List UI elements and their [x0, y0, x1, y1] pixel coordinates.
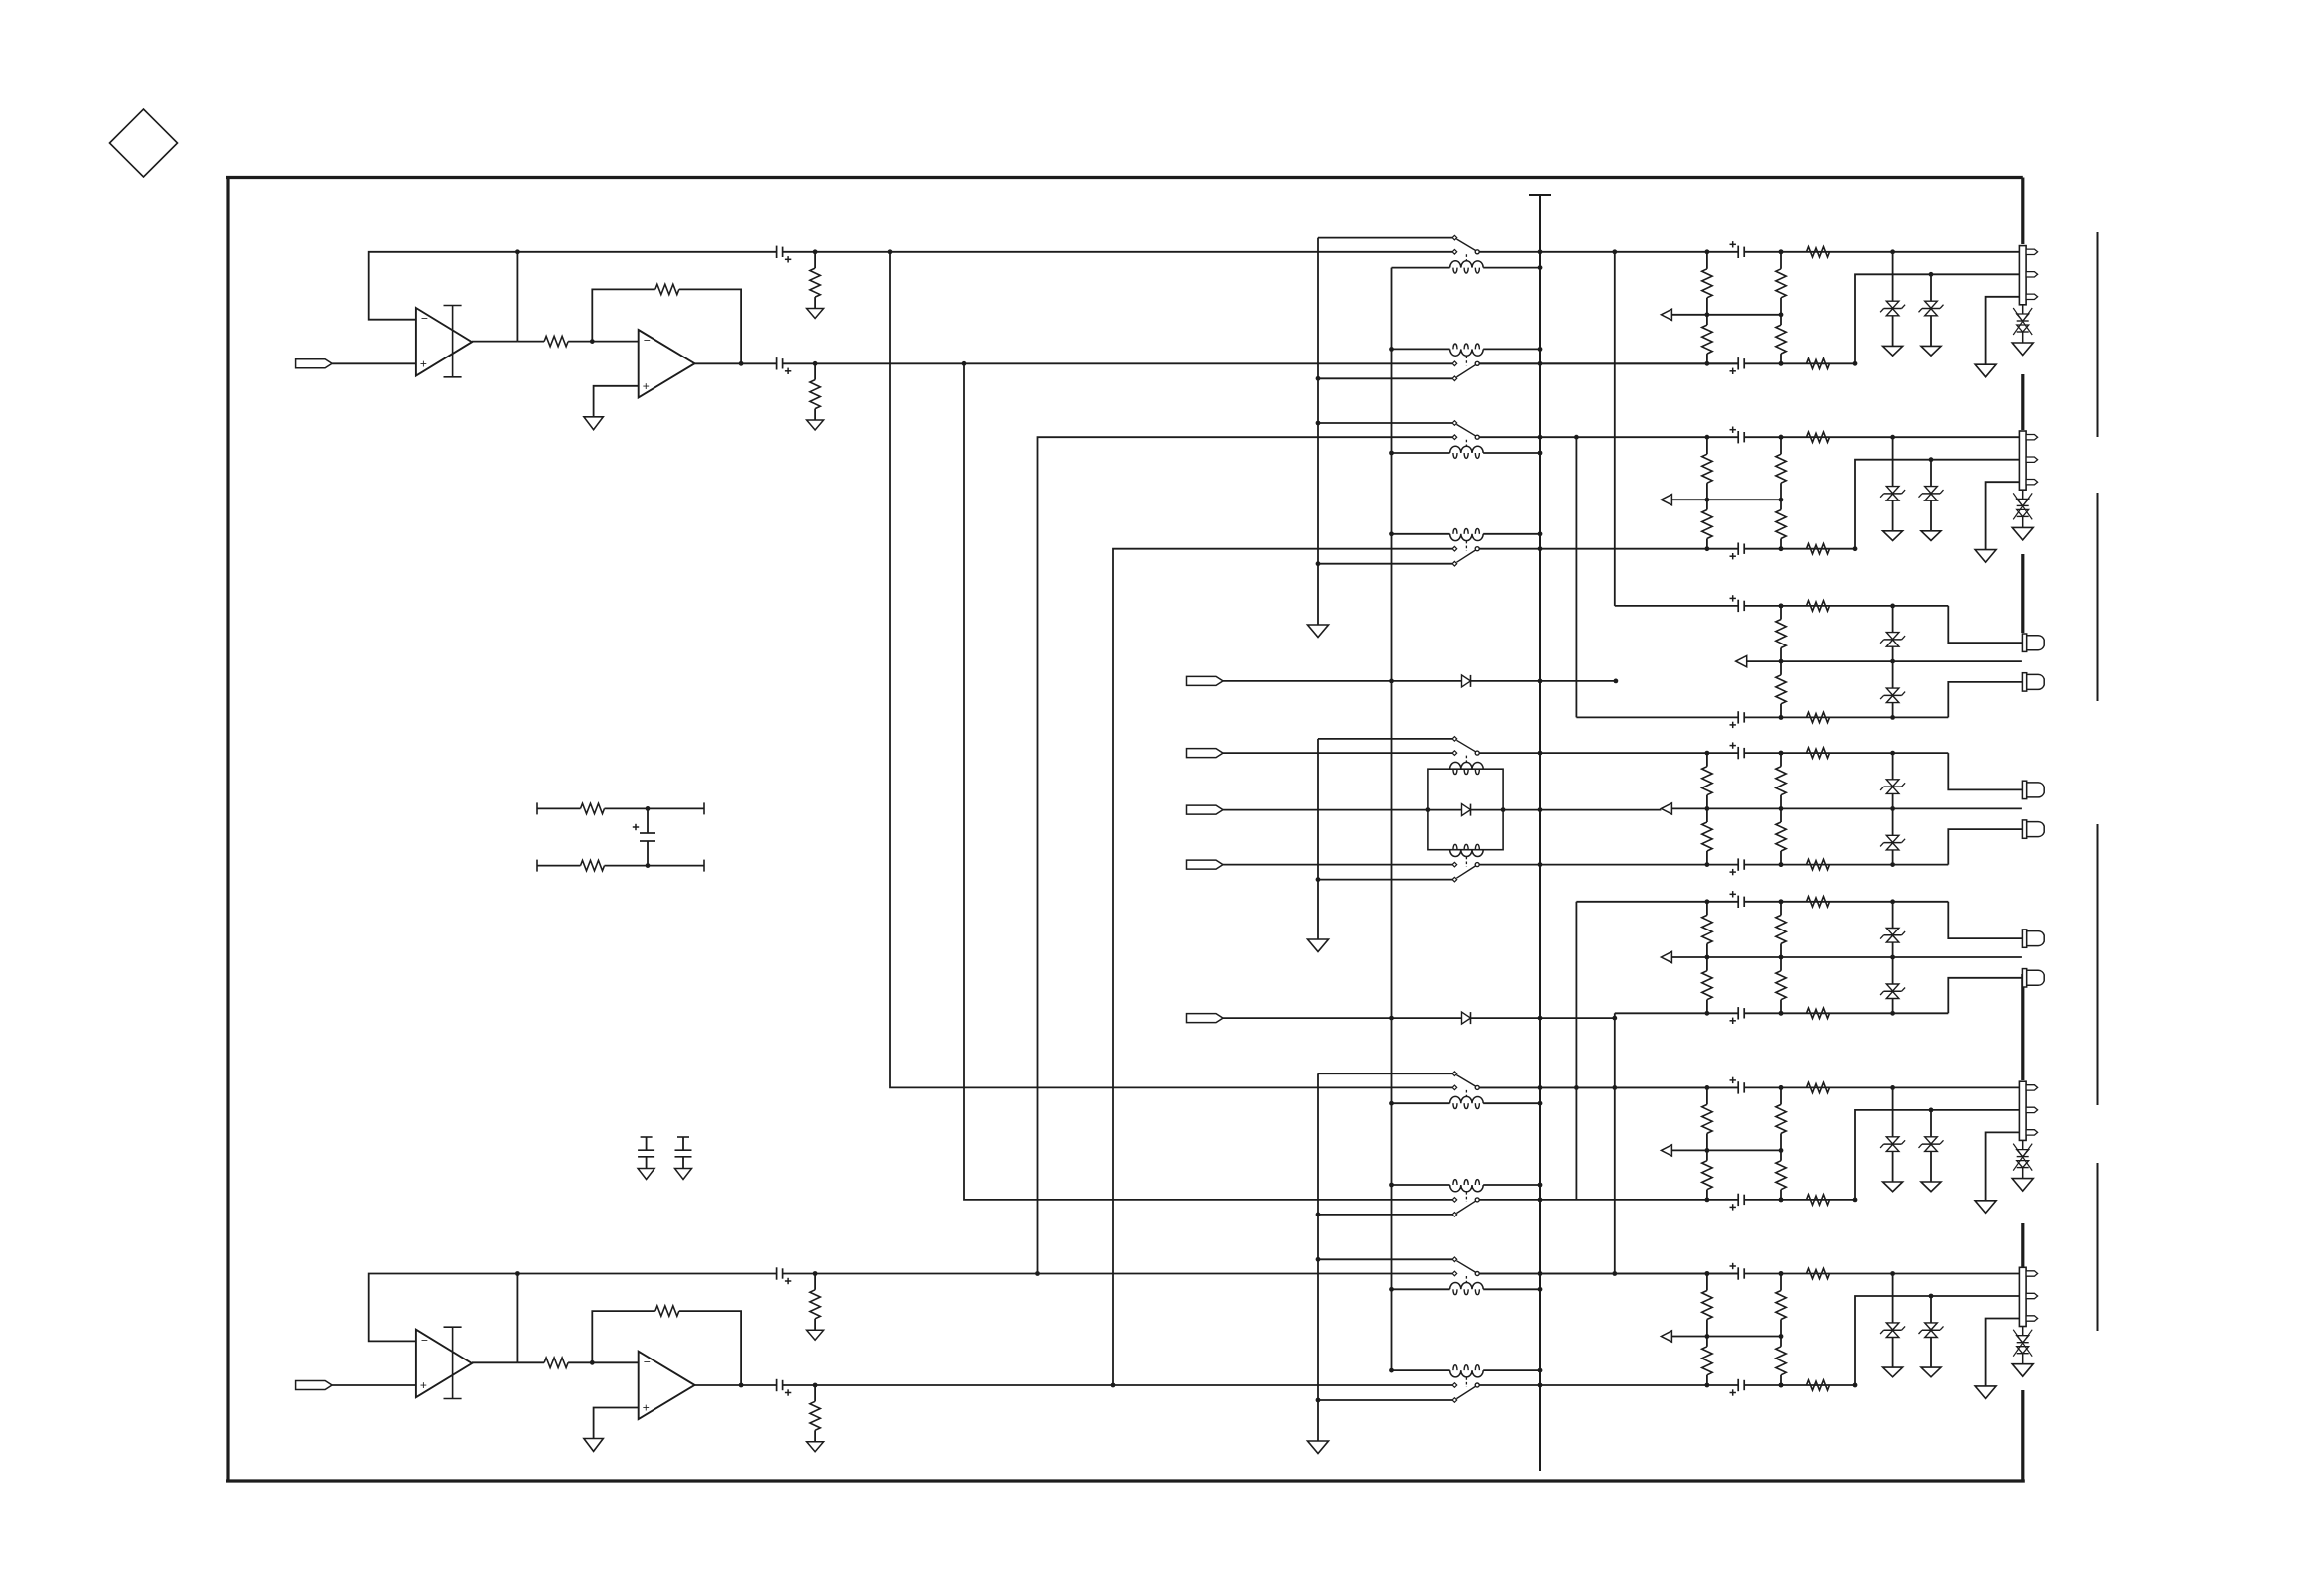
svg-text:−: − — [421, 312, 428, 326]
svg-text:−: − — [644, 334, 651, 348]
svg-text:−: − — [421, 1333, 428, 1347]
svg-text:+: + — [420, 357, 427, 370]
svg-text:+: + — [643, 1401, 650, 1415]
svg-text:+: + — [420, 1378, 427, 1392]
svg-text:−: − — [644, 1355, 651, 1368]
svg-text:+: + — [643, 379, 650, 393]
